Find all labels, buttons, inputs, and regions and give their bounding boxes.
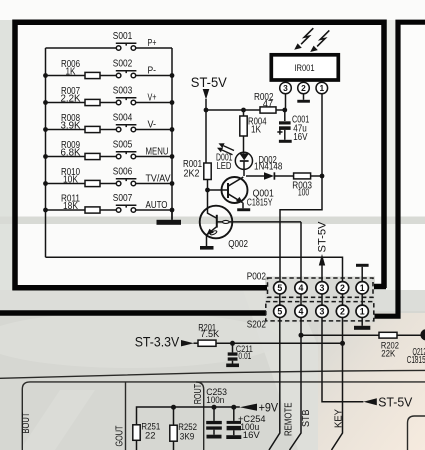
node junction R001/Q001 base: [205, 188, 210, 193]
resistor R007 2.2K: [46, 86, 117, 106]
svg-text:22K: 22K: [381, 348, 395, 359]
switch S004 V-: [113, 113, 172, 132]
svg-text:ST-5V: ST-5V: [191, 75, 227, 90]
wire ST-5V arrow into P002 pin 3: [317, 221, 329, 281]
svg-text:7.5K: 7.5K: [200, 329, 219, 340]
svg-text:C1815Y: C1815Y: [247, 197, 273, 208]
node right bus row S005: [170, 154, 175, 159]
node left bus row R007: [43, 100, 48, 105]
svg-text:10K: 10K: [63, 175, 78, 186]
node left bus row R008: [43, 127, 48, 132]
svg-text:S202: S202: [247, 320, 267, 331]
svg-text:2.2K: 2.2K: [61, 94, 81, 105]
resistor R011 18K: [46, 194, 117, 214]
svg-text:2: 2: [340, 307, 345, 317]
pin 5 of S202: [274, 305, 286, 317]
svg-text:16V: 16V: [243, 430, 261, 441]
svg-text:3K9: 3K9: [180, 432, 195, 443]
svg-text:GOUT: GOUT: [115, 426, 126, 447]
pin 3 of S202: [316, 305, 328, 317]
svg-text:2: 2: [340, 283, 345, 293]
ground C001: [279, 140, 292, 143]
node junction C254: [231, 405, 236, 410]
svg-text:47: 47: [263, 99, 274, 110]
capacitor C253 100n: [206, 387, 227, 435]
svg-text:5: 5: [277, 283, 282, 293]
svg-text:ST-5V: ST-5V: [317, 221, 329, 253]
pin 4 of S202: [295, 305, 307, 317]
svg-text:LED: LED: [217, 161, 232, 172]
pin 2 of P002: [336, 282, 348, 294]
svg-text:Q002: Q002: [228, 239, 248, 250]
pin 1 of S202: [356, 305, 368, 317]
node junction C253: [212, 405, 217, 410]
wire 5V rail: [206, 109, 285, 111]
bottom board background: [0, 290, 425, 450]
svg-text:3: 3: [283, 83, 288, 93]
resistor R003 100: [292, 173, 322, 198]
wire STB to IC: [290, 318, 313, 450]
node ST-5V supply label: [191, 75, 227, 163]
switch S001 P+: [113, 31, 172, 50]
scan gray band: [0, 217, 425, 225]
wire KEY to IC: [332, 318, 345, 450]
pin 4 of P002: [295, 282, 307, 294]
wire right switch bus: [171, 48, 173, 220]
svg-text:100: 100: [298, 187, 310, 198]
svg-text:P-: P-: [148, 66, 157, 77]
node left bus row R010: [43, 181, 48, 186]
resistor R004 1K: [240, 110, 267, 153]
svg-text:TV/AV: TV/AV: [146, 174, 171, 185]
wire GOUT divider: [115, 382, 126, 450]
node junction R252: [171, 405, 176, 410]
svg-text:ROUT: ROUT: [193, 384, 204, 405]
resistor R202 22K: [301, 332, 421, 359]
svg-text:IR001: IR001: [294, 63, 314, 74]
svg-text:1: 1: [360, 283, 365, 293]
wire board edge line B / IC top: [30, 381, 425, 383]
pin 3 of IR001: [280, 82, 292, 108]
wire row 1: [46, 47, 117, 49]
wire left key bus: [45, 48, 47, 257]
svg-text:BOUT: BOUT: [21, 413, 32, 434]
wire P002 to S202 pin links: [280, 294, 362, 305]
svg-text:S003: S003: [113, 86, 133, 97]
transistor Q212 (edge): [407, 329, 425, 366]
board separation thick line: [0, 310, 266, 316]
svg-text:P+: P+: [148, 38, 157, 49]
LED D001: [216, 143, 252, 176]
IR receiver IR001: [271, 55, 338, 80]
IC block corner bottom right: [408, 416, 425, 450]
pin 2 of S202: [336, 305, 348, 317]
right board outline (second box): [375, 22, 425, 316]
ground IR001 pin 2: [297, 100, 310, 103]
wire STB: Q002 collector to P002 pin 4: [300, 222, 302, 281]
svg-text:3: 3: [320, 283, 325, 293]
svg-text:S001: S001: [113, 31, 133, 42]
node right bus row S003: [170, 100, 175, 105]
node junction R202: [299, 333, 304, 338]
svg-text:V+: V+: [148, 93, 157, 104]
ground bar above P002 pin 1: [356, 264, 369, 282]
ground C211: [226, 364, 239, 368]
node junction C001/IR pin3: [282, 108, 287, 113]
node right bus row S004: [170, 127, 175, 132]
node junction IR out / R003: [320, 174, 325, 179]
svg-text:2: 2: [301, 83, 306, 93]
svg-text:+9V: +9V: [259, 401, 279, 415]
IC block corner ROUT: [193, 382, 204, 450]
svg-text:3.9K: 3.9K: [61, 121, 81, 132]
svg-text:0.01: 0.01: [238, 351, 251, 362]
svg-text:S006: S006: [113, 167, 133, 178]
ground bar below S202 pin 1: [354, 318, 370, 330]
svg-text:22: 22: [145, 431, 156, 442]
svg-text:4: 4: [299, 283, 304, 293]
capacitor C211 0.01: [228, 343, 253, 363]
svg-text:4: 4: [299, 307, 304, 317]
resistor R002 47: [254, 92, 276, 113]
switch S003 V+: [113, 86, 172, 105]
svg-text:AUTO: AUTO: [146, 200, 168, 211]
pin 1 of P002: [356, 282, 368, 294]
svg-text:16V: 16V: [293, 132, 307, 143]
svg-text:1K: 1K: [251, 125, 261, 136]
pin 3 of P002: [316, 282, 328, 294]
svg-text:STB: STB: [301, 409, 312, 427]
wire board edge line A: [0, 370, 425, 378]
node left bus row R009: [43, 154, 48, 159]
IR signal arrows: [294, 28, 329, 52]
connector P002: [247, 272, 373, 298]
wire +9V rail: [137, 401, 279, 425]
connector S202: [247, 302, 374, 331]
resistor R252 3K9: [170, 407, 197, 450]
switch S005 MENU: [113, 140, 172, 159]
svg-text:1N4148: 1N4148: [254, 162, 283, 173]
ground C253: [207, 435, 222, 439]
svg-text:V-: V-: [148, 120, 157, 131]
capacitor C254 100u 16V: [227, 407, 267, 441]
svg-text:C1815: C1815: [407, 355, 425, 366]
resistor R001 2K2: [183, 159, 211, 190]
resistor R009 6.8K: [46, 140, 117, 160]
resistor R010 10K: [46, 167, 117, 187]
node junction R004 top: [241, 108, 246, 113]
svg-text:REMOTE: REMOTE: [283, 402, 294, 436]
svg-text:6.8K: 6.8K: [61, 148, 81, 159]
node left bus row R011: [43, 208, 48, 213]
node ST-3.3V label: [135, 334, 194, 349]
svg-text:KEY: KEY: [334, 409, 345, 428]
node junction ST-5V/R001: [204, 108, 209, 113]
svg-text:1: 1: [319, 83, 324, 93]
transistor Q002: [200, 190, 301, 250]
IC block corner BOUT: [21, 382, 32, 450]
svg-text:S007: S007: [113, 193, 133, 204]
node left bus row R006: [43, 73, 48, 78]
capacitor C001 47u 16V: [277, 110, 309, 143]
resistor R006 1K: [46, 59, 117, 79]
svg-text:ST-3.3V: ST-3.3V: [135, 334, 180, 349]
switch S007 AUTO: [113, 193, 172, 212]
svg-text:S002: S002: [113, 59, 133, 70]
resistor R008 3.9K: [46, 113, 117, 133]
wire KEY net: key bus to P002 pin 2: [46, 257, 343, 281]
wire REMOTE to IC: [269, 318, 294, 450]
pin 1 of IR001: [316, 82, 328, 176]
diode D002 1N4148: [246, 155, 294, 180]
pin 5 of P002: [274, 282, 286, 294]
node junction KEY/R201: [340, 341, 345, 346]
svg-text:18K: 18K: [63, 201, 78, 212]
resistor R201 7.5K: [194, 323, 233, 347]
switch S002 P-: [113, 59, 172, 78]
svg-text:S005: S005: [113, 140, 133, 151]
svg-text:3: 3: [320, 307, 325, 317]
svg-text:2K2: 2K2: [184, 168, 200, 179]
svg-text:1K: 1K: [66, 67, 76, 78]
svg-text:P002: P002: [247, 272, 267, 283]
node right bus row S007: [170, 208, 175, 213]
svg-text:1: 1: [360, 307, 365, 317]
wire REMOTE: R003 node to P002 pin 5: [280, 176, 322, 281]
keyboard board outline (big box): [13, 22, 387, 290]
svg-text:ST-5V: ST-5V: [378, 394, 412, 409]
svg-text:S004: S004: [113, 113, 133, 124]
ground under switch bus: [157, 210, 182, 225]
svg-text:5: 5: [277, 307, 282, 317]
switch S006 TV/AV: [113, 167, 172, 186]
node right bus row S002: [170, 73, 175, 78]
wire ST-5V into S202 pin 3: [322, 318, 413, 410]
ground C254: [226, 435, 241, 439]
node junction C211: [230, 341, 235, 346]
pin 2 of IR001: [298, 82, 310, 100]
svg-text:MENU: MENU: [146, 147, 169, 158]
resistor R251 22: [133, 422, 160, 450]
wire R201 to KEY riser: [233, 342, 343, 344]
transistor Q001 C1815Y: [208, 177, 275, 211]
svg-text:100n: 100n: [206, 395, 224, 406]
node right bus row S006: [170, 181, 175, 186]
